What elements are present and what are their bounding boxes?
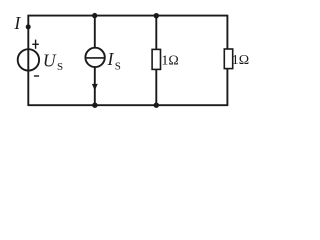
voltage source US (circle)	[18, 49, 39, 70]
node bottom of resistor branch	[154, 103, 159, 108]
node bottom of current-source branch	[92, 103, 97, 108]
node top of current-source branch	[92, 13, 97, 18]
wire left branch (through voltage source)	[27, 15, 29, 106]
wire top bus	[28, 15, 227, 17]
resistor R2 1 ohm (right branch)	[224, 49, 232, 69]
svg-text:I: I	[13, 13, 21, 33]
wire current-source branch upper	[94, 16, 96, 48]
svg-text:S: S	[115, 60, 121, 72]
svg-text:U: U	[43, 51, 57, 71]
current source direction arrowhead	[92, 84, 98, 91]
node top of resistor branch	[154, 13, 159, 18]
svg-text:I: I	[107, 49, 115, 69]
plus sign	[32, 40, 39, 49]
wire right branch	[226, 15, 228, 106]
svg-text:S: S	[57, 61, 63, 73]
resistor R1 1 ohm (middle branch)	[152, 49, 160, 69]
svg-text:1Ω: 1Ω	[232, 53, 249, 68]
current source IS (circle with horizontal bar)	[85, 48, 104, 67]
current arrow I (arrowhead on left wire)	[26, 24, 31, 29]
wire resistor branch	[155, 16, 157, 106]
wire current-source branch lower	[94, 67, 96, 105]
svg-text:1Ω: 1Ω	[161, 53, 178, 68]
minus sign	[34, 75, 39, 76]
current source bar	[86, 57, 105, 59]
wire bottom bus	[28, 104, 227, 106]
